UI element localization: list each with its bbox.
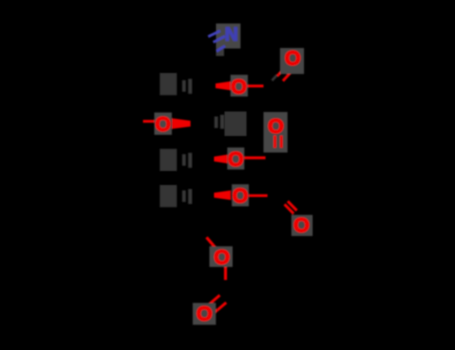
C3-H hashed wedge dashes [214,117,218,129]
svg-text:N: N [225,24,238,44]
C2-H hashed wedge dashes [182,80,186,92]
svg-text:O: O [232,185,248,208]
nitrile triple bond C1#N [208,31,225,51]
carbonyl O (C5 acetate) label box [291,215,312,236]
C=O double bond (red halves), C4 acetate [273,136,276,148]
nitrile N label box [216,24,241,49]
C=O double bond (red halves), C5 acetate [285,204,294,213]
OMe methyl-O bond (red half) [143,120,155,123]
C=O double bond (red halves), C2 acetate [277,66,286,76]
svg-text:O: O [228,148,244,171]
OMe O label box [154,113,172,135]
C4-O bold wedge (red half) [214,154,230,164]
O-C bond (red half), C6 acetate [224,267,227,280]
ester O (C6 acetate) label box [209,246,232,267]
C5 H label box (letter hidden) [160,185,177,207]
C5-H hashed wedge dashes [182,190,186,202]
ester O (C4 acetate) label box [227,148,244,170]
C=O double bond (red halves), C6 acetate [207,295,220,306]
ester O (C5 acetate) label box [232,184,249,206]
C3-O bold wedge (red half) [172,118,191,129]
C6-O bond (red half), C6 acetate [207,237,217,248]
O-C bond (red half), C4 acetate [244,156,265,159]
C3 H label box (letter hidden) [225,112,247,137]
C5-O bold wedge (red half) [214,190,231,200]
C2 H label box (letter hidden) [160,73,177,95]
ester O (C2 acetate) label box [231,75,248,97]
carbonyl O (C4 acetate) label box [264,112,288,153]
svg-text:O: O [285,47,301,70]
C=O dark half remnant [272,75,277,80]
C4 H label box (letter hidden) [160,149,177,171]
C2-O bold wedge (red half) [216,81,232,90]
svg-text:O: O [231,75,247,98]
svg-text:O: O [214,246,230,269]
O-C bond (red half), C5 acetate [249,194,268,197]
svg-text:O: O [196,303,212,326]
svg-text:O: O [155,113,171,136]
svg-text:O: O [294,214,310,237]
C4-H hashed wedge dashes [182,154,186,166]
carbonyl O (C6 acetate) label box [193,303,216,325]
O-C bond (red half), C2 acetate [248,85,264,88]
carbonyl O (C2 acetate) label box [280,48,304,74]
svg-text:O: O [268,115,284,138]
